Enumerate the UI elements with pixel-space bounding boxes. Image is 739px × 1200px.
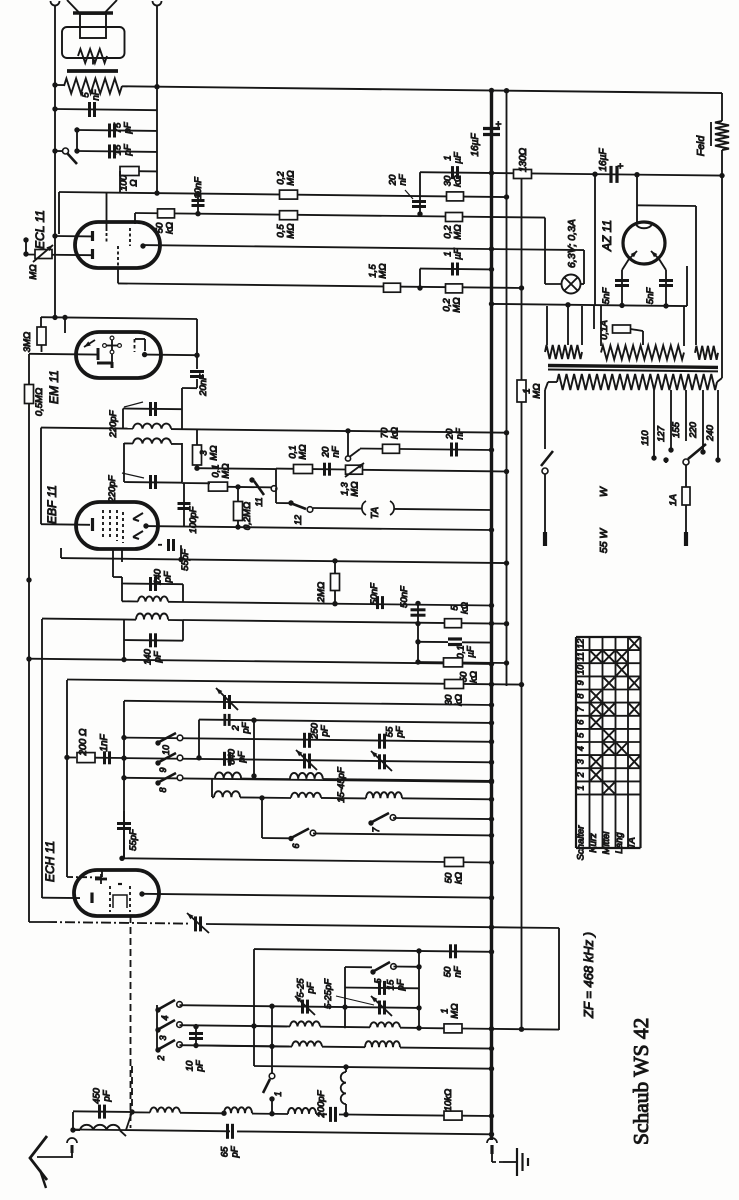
svg-text:6: 6	[291, 843, 301, 848]
capacitor 20nF	[190, 372, 209, 397]
wire	[101, 871, 103, 877]
svg-text:12: 12	[576, 639, 586, 649]
capacitor 15pF	[345, 978, 419, 995]
wire	[490, 91, 493, 1140]
coil RF	[212, 791, 240, 797]
coil RF input	[132, 1107, 180, 1112]
resistor Feld	[695, 121, 729, 156]
svg-text:Lang: Lang	[614, 832, 625, 854]
label W	[598, 486, 610, 497]
svg-text:55 W: 55 W	[598, 528, 610, 554]
svg-text:2: 2	[156, 1055, 166, 1061]
wire	[142, 894, 494, 901]
electrode	[135, 339, 146, 352]
winding rectifier filament	[695, 346, 718, 360]
electrode	[91, 231, 94, 259]
table row TA	[627, 837, 638, 848]
coil oscillator	[290, 1021, 320, 1026]
svg-text:Ω: Ω	[129, 179, 140, 186]
wire	[685, 505, 687, 532]
capacitor variable tuning	[216, 688, 238, 710]
svg-text:50nF: 50nF	[399, 585, 410, 608]
wire	[135, 213, 545, 224]
wire	[721, 150, 723, 378]
wire	[254, 948, 494, 954]
capacitor 10nF	[192, 176, 205, 216]
wire	[156, 6, 158, 193]
wire	[121, 620, 183, 663]
table grid	[576, 637, 641, 848]
svg-text:MΩ: MΩ	[532, 383, 543, 398]
wire	[360, 447, 494, 452]
svg-text:200pF: 200pF	[316, 1089, 327, 1118]
switch 3	[155, 1020, 182, 1041]
svg-text:MΩ: MΩ	[453, 224, 464, 239]
plug lead	[684, 532, 688, 546]
svg-text:3MΩ: 3MΩ	[22, 332, 33, 352]
table row Lang	[614, 832, 625, 854]
capacitor 640pF	[225, 748, 248, 765]
wire	[124, 481, 182, 484]
wire	[26, 403, 31, 922]
svg-text:10nF: 10nF	[193, 176, 204, 199]
svg-text:MΩ: MΩ	[209, 445, 220, 460]
svg-text:MΩ: MΩ	[452, 297, 463, 312]
svg-text:220pF: 220pF	[108, 409, 119, 438]
speaker cone	[67, 0, 117, 13]
capacitor 75pF	[110, 121, 134, 137]
wire	[64, 318, 66, 334]
svg-text:9: 9	[576, 680, 586, 685]
wire	[67, 680, 524, 688]
wire	[253, 949, 255, 1066]
tube AZ11	[600, 220, 665, 264]
tap 155	[671, 390, 686, 441]
wire	[124, 758, 494, 765]
wire	[118, 267, 524, 291]
wire	[123, 408, 182, 411]
resistor 0,5MOhm	[25, 385, 46, 417]
wire	[506, 91, 508, 686]
wire	[120, 170, 157, 172]
wire	[545, 382, 557, 449]
capacitor electrolytic 16uF	[598, 148, 627, 183]
svg-text:155: 155	[671, 421, 682, 438]
resistor 50kOhm	[444, 858, 465, 884]
wire	[121, 775, 494, 785]
capacitor 50nF	[443, 944, 464, 977]
resistor 30kOhm	[444, 680, 465, 706]
capacitor 20nF	[321, 445, 342, 475]
resistor 100Ohm	[119, 167, 140, 191]
wire	[544, 218, 546, 284]
svg-text:1nF: 1nF	[99, 733, 110, 751]
wire	[29, 354, 97, 385]
svg-text:ECH 11: ECH 11	[43, 841, 57, 882]
pickup TA	[313, 501, 492, 519]
capacitor 55pF	[117, 811, 139, 858]
coil antenna	[73, 1112, 132, 1136]
junction	[154, 84, 509, 93]
wire	[521, 402, 523, 1030]
resistor 1MOhm mains	[517, 380, 543, 402]
terminal chassis	[487, 1138, 497, 1154]
coil IF	[124, 438, 182, 444]
wire	[686, 266, 688, 306]
svg-text:5nF: 5nF	[645, 287, 656, 305]
electrode	[95, 874, 107, 884]
electrode	[113, 895, 127, 908]
capacitor 1uF	[443, 151, 464, 179]
capacitor 15pF	[110, 143, 134, 158]
coil RF	[215, 772, 241, 778]
pin	[140, 243, 145, 248]
wire	[156, 1005, 158, 1048]
resistor output winding	[64, 79, 122, 94]
table X marks	[591, 638, 640, 794]
wire	[593, 305, 595, 329]
svg-text:pF: pF	[123, 143, 134, 156]
coil oscillator	[370, 1022, 400, 1027]
coil oscillator	[292, 1041, 322, 1046]
resistor 10kOhm	[443, 1089, 494, 1120]
wire	[347, 432, 349, 456]
capacitor 220pF	[108, 402, 156, 438]
wire	[269, 1111, 444, 1116]
coil RF input	[221, 1107, 252, 1116]
svg-text:55pF: 55pF	[128, 828, 139, 851]
capacitor trimmer 15-45pF	[296, 750, 347, 803]
wire	[58, 192, 60, 234]
wiper	[345, 449, 360, 461]
svg-text:pF: pF	[241, 721, 252, 734]
wire	[182, 469, 276, 488]
wire	[419, 172, 421, 213]
wire	[418, 951, 420, 1028]
svg-text:3: 3	[576, 759, 586, 764]
svg-text:5nF: 5nF	[601, 287, 612, 305]
wire	[240, 797, 494, 802]
wire	[492, 1154, 517, 1162]
resistor 0,1MOhm	[288, 444, 313, 473]
svg-text:pF: pF	[153, 650, 164, 663]
wire	[492, 470, 507, 472]
wire	[67, 876, 102, 878]
speaker driver	[80, 14, 106, 38]
resistor 50kOhm	[444, 658, 480, 683]
wire	[47, 922, 190, 924]
svg-text:nF: nF	[455, 427, 466, 439]
tube ECL11	[33, 210, 160, 268]
svg-text:200 Ω: 200 Ω	[78, 728, 89, 756]
capacitor 250pF	[305, 722, 331, 747]
wire	[52, 82, 64, 87]
resistor 30kOhm	[443, 175, 464, 201]
wire	[60, 548, 62, 558]
svg-text:ECL 11: ECL 11	[33, 210, 47, 249]
resistor 0,2MOhm	[442, 284, 463, 313]
resistor 0,5MOhm	[276, 211, 298, 239]
switch 10	[155, 733, 183, 755]
svg-text:Schalter: Schalter	[576, 825, 587, 861]
capacitor 450pF	[73, 1087, 135, 1118]
svg-text:pF: pF	[195, 1059, 206, 1072]
svg-text:MΩ: MΩ	[28, 264, 39, 279]
svg-text:kΩ: kΩ	[454, 872, 465, 884]
capacitor variable padder	[371, 996, 392, 1016]
svg-text:240: 240	[705, 424, 716, 442]
svg-text:µF: µF	[453, 247, 464, 259]
capacitor 2pF	[196, 714, 256, 761]
capacitor 140pF	[122, 568, 183, 591]
wire	[70, 1112, 75, 1133]
svg-text:µF: µF	[466, 645, 477, 657]
electrode	[110, 886, 130, 912]
wire	[41, 315, 197, 321]
electrode	[103, 510, 123, 543]
tube ECH11	[43, 841, 159, 916]
wire	[121, 549, 123, 562]
capacitor 50nF	[369, 582, 383, 609]
wire	[143, 245, 584, 252]
wire	[583, 250, 585, 284]
svg-text:110: 110	[640, 430, 651, 446]
transformer core	[548, 366, 718, 372]
svg-text:nF: nF	[91, 88, 102, 100]
wire	[180, 1004, 422, 1011]
capacitor 20nF	[388, 173, 427, 216]
wire	[636, 175, 638, 223]
resistor field shunt	[78, 49, 107, 63]
pin	[143, 523, 148, 528]
resistor 200Ohm	[64, 728, 95, 763]
wire	[29, 921, 47, 923]
wire	[124, 701, 494, 708]
wire	[521, 179, 523, 381]
capacitor 55pF	[380, 725, 406, 748]
svg-text:µF: µF	[453, 151, 464, 163]
svg-text:Mittel: Mittel	[601, 831, 612, 855]
wire	[348, 431, 507, 433]
wire	[637, 205, 696, 345]
svg-text:MΩ: MΩ	[286, 223, 297, 238]
electrode	[106, 193, 108, 243]
ground	[517, 1148, 528, 1176]
svg-text:6,3V; 0,3A: 6,3V; 0,3A	[566, 219, 578, 268]
resistor 5kOhm	[445, 602, 471, 628]
capacitor 200pF	[316, 1089, 349, 1122]
capacitor trimmer	[371, 751, 392, 771]
wire	[362, 469, 509, 474]
svg-text:MΩ: MΩ	[450, 1003, 461, 1018]
resistor 1,5MOhm	[368, 263, 401, 292]
coil IF	[42, 614, 183, 621]
winding HV	[601, 346, 684, 360]
svg-text:2: 2	[576, 772, 586, 778]
svg-text:MΩ: MΩ	[298, 444, 309, 459]
svg-text:10: 10	[161, 745, 171, 755]
antenna	[30, 1136, 47, 1188]
wire	[415, 659, 509, 665]
resistor 130Ohm	[514, 147, 532, 178]
wire	[194, 466, 276, 471]
resistor 2MOhm	[316, 558, 340, 606]
wire	[182, 379, 197, 409]
svg-text:kΩ: kΩ	[165, 222, 176, 234]
wire	[119, 856, 494, 866]
transformer core	[67, 69, 118, 73]
terminal	[51, 1, 60, 6]
svg-text:0,2MΩ: 0,2MΩ	[242, 502, 253, 530]
wire	[146, 526, 494, 533]
svg-text:10: 10	[576, 665, 586, 675]
resistor 3MOhm	[193, 429, 220, 468]
svg-text:AZ 11: AZ 11	[600, 220, 614, 252]
svg-text:220pF: 220pF	[107, 474, 118, 503]
capacitor 50nF	[399, 585, 426, 664]
svg-text:pF: pF	[396, 978, 407, 991]
capacitor 55pF	[158, 539, 191, 571]
svg-text:nF: nF	[331, 445, 342, 457]
capacitor 5nF	[81, 88, 102, 117]
pin	[142, 352, 147, 357]
resistor 0,1A	[599, 320, 631, 340]
label ZF	[581, 932, 596, 1019]
svg-text:MΩ: MΩ	[221, 463, 232, 478]
svg-text:100pF: 100pF	[188, 505, 199, 533]
svg-text:Kurz: Kurz	[588, 833, 599, 853]
wire	[54, 6, 56, 318]
coil IF	[133, 424, 171, 429]
wire	[271, 1008, 273, 1073]
wire	[52, 233, 92, 238]
wire	[594, 174, 596, 305]
wire	[251, 1023, 421, 1030]
svg-text:pF: pF	[163, 570, 174, 583]
wire	[183, 620, 509, 626]
tap 240	[705, 390, 721, 463]
resistor 0,1MOhm	[209, 463, 232, 491]
label 55W	[598, 528, 610, 554]
svg-text:130Ω: 130Ω	[518, 147, 529, 172]
lamp 6,3V 0,3A	[545, 219, 584, 293]
wire	[123, 409, 182, 430]
svg-text:6: 6	[576, 720, 586, 725]
switch 5	[345, 962, 422, 984]
wire	[59, 190, 509, 199]
svg-text:+: +	[494, 121, 505, 127]
capacitor variable gang	[187, 913, 209, 933]
label 5-25pF	[323, 978, 374, 1009]
svg-text:pF: pF	[320, 724, 331, 737]
wire	[251, 720, 256, 779]
capacitor 10pF	[185, 1024, 206, 1073]
svg-text:12: 12	[293, 515, 303, 525]
wire	[211, 779, 213, 798]
svg-text:nF: nF	[398, 173, 409, 185]
electrode	[97, 348, 111, 363]
coil oscillator	[365, 1041, 400, 1047]
wire	[417, 269, 422, 291]
wire	[344, 967, 346, 1028]
svg-text:ZF = 468 kHz ): ZF = 468 kHz )	[581, 932, 596, 1019]
switch 1	[263, 1073, 283, 1113]
capacitor 1nF	[95, 733, 127, 764]
wire	[252, 1113, 288, 1115]
wire	[259, 795, 291, 838]
electrode	[133, 531, 143, 539]
svg-text:pF: pF	[306, 981, 317, 994]
svg-text:220: 220	[688, 421, 699, 439]
capacitor 1uF	[443, 247, 464, 275]
electrode	[103, 336, 122, 368]
svg-text:127: 127	[656, 425, 667, 442]
wire	[180, 1112, 224, 1115]
wire	[420, 170, 725, 178]
wire	[254, 720, 494, 725]
wire	[74, 127, 79, 153]
wire	[123, 701, 125, 858]
winding 6,3V	[545, 345, 582, 359]
svg-text:Schaub WS 42: Schaub WS 42	[629, 1018, 653, 1145]
wire	[254, 1066, 494, 1071]
switch 4	[155, 1000, 182, 1021]
capacitor 0,1uF	[415, 639, 491, 659]
resistor 3MOhm	[22, 317, 46, 352]
switch mains	[541, 451, 553, 532]
svg-text:4: 4	[576, 746, 586, 751]
wire	[183, 602, 494, 608]
wire	[180, 1045, 290, 1046]
svg-text:MΩ: MΩ	[350, 481, 361, 496]
svg-text:MΩ: MΩ	[378, 263, 389, 278]
wire	[41, 428, 509, 525]
wire	[180, 1025, 288, 1026]
svg-text:2MΩ: 2MΩ	[316, 582, 327, 603]
tap 127	[656, 390, 674, 453]
svg-text:5-25pF: 5-25pF	[323, 978, 334, 1009]
fuse 1A	[668, 487, 690, 506]
winding primary	[557, 374, 717, 390]
svg-text:MΩ: MΩ	[286, 170, 297, 185]
coil antenna series	[341, 1064, 349, 1112]
wire	[77, 129, 157, 132]
electrode	[84, 340, 95, 347]
plug lead	[543, 532, 547, 546]
wire	[547, 306, 582, 346]
table row Mittel	[601, 831, 612, 855]
capacitor electrolytic 16uF	[470, 121, 505, 157]
resistor 70kOhm	[380, 427, 401, 453]
capacitor trimmer 5-25pF	[295, 978, 317, 1015]
wire	[123, 443, 125, 482]
svg-text:kΩ: kΩ	[469, 671, 480, 683]
wire	[113, 549, 122, 584]
svg-text:11: 11	[576, 652, 586, 661]
switch 7	[368, 813, 494, 833]
wire	[241, 778, 494, 783]
wire	[28, 659, 494, 667]
svg-text:+: +	[616, 163, 627, 169]
wire	[631, 329, 644, 345]
wire	[130, 916, 132, 1128]
wire	[122, 86, 722, 93]
coil RF	[291, 793, 321, 798]
wire	[601, 306, 684, 346]
svg-text:16µF: 16µF	[470, 133, 481, 157]
svg-text:nF: nF	[453, 965, 464, 977]
wire	[42, 897, 80, 899]
